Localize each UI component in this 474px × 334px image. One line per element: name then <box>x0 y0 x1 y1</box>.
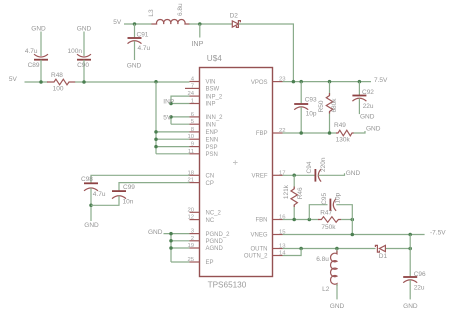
svg-text:INP: INP <box>191 39 203 48</box>
svg-text:12: 12 <box>187 215 194 221</box>
svg-text:L3: L3 <box>148 9 155 17</box>
svg-text:100: 100 <box>53 86 64 93</box>
svg-text:U$4: U$4 <box>207 54 222 63</box>
svg-text:4.7u: 4.7u <box>138 45 151 52</box>
svg-text:VPOS: VPOS <box>251 80 268 86</box>
svg-text:OUTN_2: OUTN_2 <box>244 254 268 260</box>
junction dots FBN row <box>292 218 296 222</box>
pin 1 INP <box>190 103 200 105</box>
svg-text:C96: C96 <box>414 271 426 278</box>
resistor R47 <box>318 217 341 223</box>
svg-text:R49: R49 <box>334 122 346 129</box>
svg-text:L2: L2 <box>322 286 330 293</box>
capacitor C91 <box>134 24 136 38</box>
svg-text:2: 2 <box>191 236 194 242</box>
capacitor C94 <box>314 169 316 182</box>
svg-text:C90: C90 <box>77 62 89 69</box>
junction dot VREF/R46 <box>292 174 296 178</box>
IC origin cross <box>233 160 238 165</box>
svg-text:9: 9 <box>191 142 194 148</box>
wire FBP to GND <box>354 131 366 133</box>
pin 14 OUTN_2 <box>273 255 283 257</box>
svg-text:R50: R50 <box>318 100 325 112</box>
svg-text:GND: GND <box>346 170 361 177</box>
inductor L3 <box>152 20 191 24</box>
pin 8 ENP <box>190 131 200 133</box>
junction dot C91 tap <box>133 22 137 26</box>
svg-text:GND: GND <box>330 303 345 310</box>
svg-text:4.7u: 4.7u <box>93 191 106 198</box>
pin 4 VIN <box>190 81 200 83</box>
wire 5V bracket pins 6/5 <box>171 117 190 124</box>
svg-text:D1: D1 <box>379 253 388 260</box>
pin 24 INP_2 <box>190 95 200 97</box>
wire INP label stub <box>199 24 201 38</box>
junction dots GND bus <box>169 232 173 236</box>
wire CP to C99 <box>119 183 190 191</box>
svg-text:VIN: VIN <box>206 80 216 86</box>
svg-text:7: 7 <box>191 83 194 89</box>
wire C95 bypass loop <box>309 205 352 220</box>
svg-text:6.8u: 6.8u <box>316 256 329 263</box>
svg-text:ENN: ENN <box>206 137 219 143</box>
svg-text:C98: C98 <box>81 176 93 183</box>
svg-text:10p: 10p <box>306 110 317 117</box>
svg-text:100n: 100n <box>68 48 83 55</box>
wire top rail L3 to D2 <box>189 23 232 25</box>
wire enable bus vertical <box>155 82 157 154</box>
svg-text:750k: 750k <box>321 224 336 231</box>
svg-text:10n: 10n <box>123 198 134 205</box>
resistor R49 <box>336 130 354 136</box>
junction dots FBP row <box>299 131 303 135</box>
svg-text:5V: 5V <box>113 19 122 26</box>
pin 20 NC_2 <box>190 211 200 213</box>
wire VREF row left <box>283 174 316 176</box>
svg-text:10p: 10p <box>335 192 342 203</box>
pin 18 CN <box>190 174 200 176</box>
wire 5V rail right of R48 to pin VIN <box>75 81 190 83</box>
wire 5V top rail <box>124 23 152 25</box>
svg-text:VREF: VREF <box>251 174 267 180</box>
junction dot C98 bottom <box>89 204 93 208</box>
svg-text:GND: GND <box>403 303 418 310</box>
svg-text:C99: C99 <box>123 184 135 191</box>
wire OUTN row <box>283 248 411 250</box>
op-amp U$4 IC box TPS65130 <box>200 68 273 277</box>
svg-text:FBP: FBP <box>256 131 268 137</box>
svg-text:-7.5V: -7.5V <box>430 230 446 237</box>
svg-text:6.8u: 6.8u <box>177 3 184 16</box>
diode D1 schottky <box>379 245 385 251</box>
wire FBN row <box>283 219 353 221</box>
svg-text:GND: GND <box>360 114 375 121</box>
svg-text:GND: GND <box>127 62 142 69</box>
svg-text:C95: C95 <box>321 192 328 204</box>
pin 19 AGND <box>190 247 200 249</box>
svg-text:680k: 680k <box>331 98 338 113</box>
svg-text:7.5V: 7.5V <box>374 77 388 84</box>
capacitor C95 <box>329 199 331 211</box>
svg-text:PGND: PGND <box>206 239 224 245</box>
svg-text:INP_2: INP_2 <box>206 94 223 100</box>
pin 10 ENN <box>190 138 200 140</box>
wire 5V rail left <box>25 81 49 83</box>
svg-text:C89: C89 <box>28 62 40 69</box>
svg-text:5V: 5V <box>163 114 172 121</box>
svg-text:CN: CN <box>206 174 215 180</box>
inductor L2 <box>336 249 338 255</box>
svg-text:TPS65130: TPS65130 <box>208 280 247 289</box>
svg-text:INP: INP <box>206 102 216 108</box>
junction dot C90/5V <box>82 80 86 84</box>
junction dot C89/5V <box>39 80 43 84</box>
capacitor C90 <box>83 32 85 57</box>
svg-text:INN: INN <box>206 122 216 128</box>
svg-text:VNEG: VNEG <box>250 233 267 239</box>
pin 5 INN <box>190 123 200 125</box>
wire FBP row <box>283 132 337 134</box>
pin 11 PSN <box>190 153 200 155</box>
wire VNEG row <box>283 234 425 236</box>
svg-text:D2: D2 <box>230 12 239 19</box>
wire PSN <box>156 153 190 155</box>
svg-text:INN_2: INN_2 <box>206 115 224 121</box>
wire OUTN_2 tie <box>283 249 302 256</box>
pin 25 EP <box>190 261 200 263</box>
junction dots VNEG row <box>351 233 355 237</box>
svg-text:PSN: PSN <box>206 152 218 158</box>
resistor R46 <box>293 175 295 219</box>
pin 7 BSW <box>185 87 200 89</box>
wire VNEG to C96 vertical <box>409 235 411 278</box>
svg-text:22u: 22u <box>363 103 374 110</box>
wire ENN <box>156 138 190 140</box>
capacitor C96 <box>403 276 417 278</box>
svg-text:1: 1 <box>191 99 194 105</box>
wire GND bus <box>164 234 190 262</box>
resistor R50 <box>329 82 331 133</box>
pin 2 PGND <box>190 240 200 242</box>
pin 22 FBP <box>273 132 283 134</box>
wire PSP <box>156 146 190 148</box>
wire VPOS rail <box>283 81 372 83</box>
capacitor C99 <box>112 190 126 192</box>
wire FBN to VNEG vertical <box>351 220 353 235</box>
pin 17 VREF <box>273 174 283 176</box>
svg-text:GND: GND <box>148 229 163 236</box>
svg-text:BSW: BSW <box>206 87 220 93</box>
wire ENP <box>156 131 190 133</box>
junction dots VPOS rail <box>292 80 296 84</box>
diode D2 schottky <box>232 21 238 27</box>
svg-text:CP: CP <box>206 181 214 187</box>
svg-text:EP: EP <box>206 260 214 266</box>
svg-text:PGND_2: PGND_2 <box>206 232 231 238</box>
resistor R48 <box>47 79 76 85</box>
svg-text:121k: 121k <box>283 184 290 199</box>
pin 3 PGND_2 <box>190 233 200 235</box>
wire CN to C98 <box>91 175 190 183</box>
svg-text:ENP: ENP <box>206 130 218 136</box>
svg-text:FBN: FBN <box>256 218 268 224</box>
pin 6 INN_2 <box>190 116 200 118</box>
pin 15 VNEG <box>273 234 283 236</box>
pin 21 CP <box>190 182 200 184</box>
svg-text:PSP: PSP <box>206 145 218 151</box>
svg-text:GND: GND <box>84 222 99 229</box>
svg-text:C94: C94 <box>306 161 313 173</box>
svg-text:220n: 220n <box>320 157 327 172</box>
pin 9 PSP <box>190 146 200 148</box>
junction dot VIN bus <box>154 80 158 84</box>
capacitor C93 <box>300 82 302 104</box>
svg-text:GND: GND <box>366 126 381 133</box>
svg-text:130k: 130k <box>336 137 351 144</box>
svg-text:R48: R48 <box>51 72 63 79</box>
capacitor C89 <box>40 32 42 57</box>
junction dot INP tap <box>198 22 202 26</box>
svg-text:OUTN: OUTN <box>251 247 268 253</box>
capacitor C98 <box>84 182 98 184</box>
junction dots OUTN row <box>299 247 303 251</box>
svg-text:4.7u: 4.7u <box>25 48 38 55</box>
wire top rail D2 to corner and down to VPOS <box>239 24 294 82</box>
svg-text:22u: 22u <box>414 284 425 291</box>
svg-text:GND: GND <box>31 26 46 33</box>
svg-text:INP: INP <box>163 99 174 106</box>
svg-text:20: 20 <box>187 207 194 213</box>
pin 23 VPOS <box>273 81 283 83</box>
svg-text:NC_2: NC_2 <box>206 211 222 217</box>
svg-text:NC: NC <box>206 218 215 224</box>
svg-text:5V: 5V <box>9 76 18 83</box>
pin 13 OUTN <box>273 248 283 250</box>
svg-text:C93: C93 <box>305 96 317 103</box>
capacitor C92 <box>358 82 360 96</box>
svg-text:AGND: AGND <box>206 246 224 252</box>
svg-text:R46: R46 <box>297 187 304 199</box>
svg-text:C91: C91 <box>137 31 149 38</box>
svg-text:C92: C92 <box>362 89 374 96</box>
pin 16 FBN <box>273 219 283 221</box>
svg-text:GND: GND <box>77 26 92 33</box>
pin 12 NC <box>190 219 200 221</box>
wire INP bracket pins 24/1 <box>171 96 190 103</box>
